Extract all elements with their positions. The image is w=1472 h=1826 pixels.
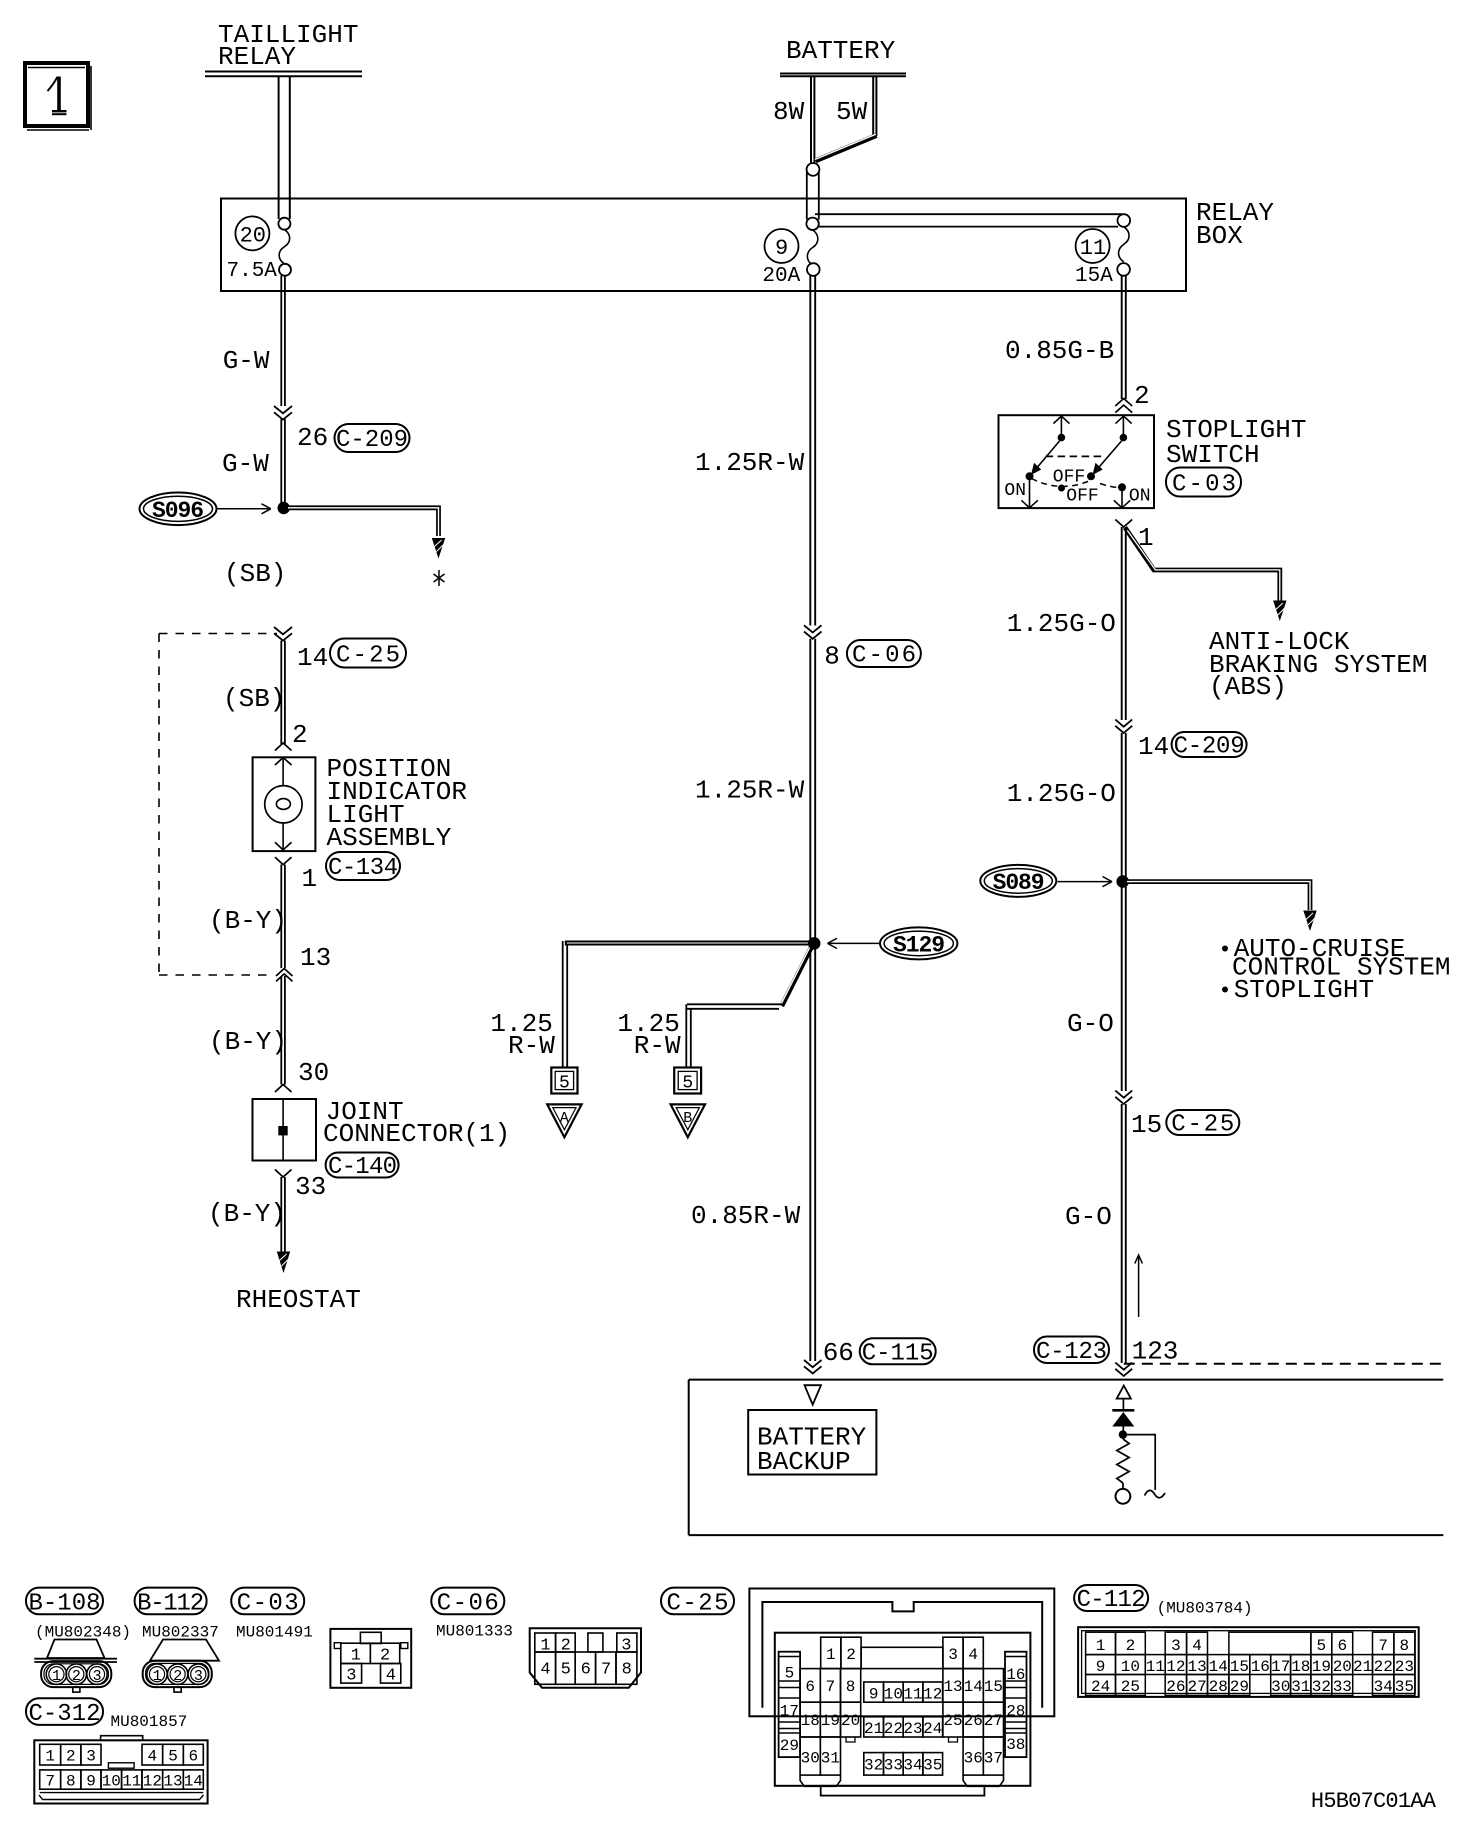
connector stadium C-209 right xyxy=(1172,732,1247,761)
connector drawing C-25 xyxy=(749,1589,1054,1796)
fuse 9 top terminal xyxy=(806,218,818,230)
connector stadium C-115 xyxy=(860,1338,936,1367)
position indicator light assembly label xyxy=(327,754,467,853)
wire 1.25G-O C-209 to S089 xyxy=(1122,733,1126,1091)
svg-text:4: 4 xyxy=(386,1667,396,1686)
svg-text:20: 20 xyxy=(240,224,266,249)
svg-text:29: 29 xyxy=(780,1737,799,1755)
anti-lock braking system label xyxy=(1209,627,1427,702)
connector pass symbol 14 xyxy=(274,627,292,641)
svg-text:5: 5 xyxy=(1317,1637,1327,1655)
switch pole right on dot xyxy=(1118,483,1126,491)
svg-text:5: 5 xyxy=(559,1074,570,1094)
svg-text:3: 3 xyxy=(621,1637,631,1656)
fuse 9 element xyxy=(762,230,819,288)
resistor xyxy=(1117,1439,1129,1483)
connector stadium C-112 xyxy=(1074,1585,1148,1614)
svg-text:1: 1 xyxy=(45,1748,55,1766)
branch arrowhead xyxy=(432,538,445,559)
svg-text:5: 5 xyxy=(785,1665,795,1683)
svg-text:3: 3 xyxy=(86,1748,96,1766)
switch pole left pivot dot xyxy=(1026,472,1034,480)
svg-text:21: 21 xyxy=(864,1720,883,1738)
branch wire A from S129 xyxy=(565,941,814,946)
wire inside joint connector xyxy=(282,1099,284,1161)
svg-text:C-06: C-06 xyxy=(852,643,916,670)
ABS arrowhead xyxy=(1273,601,1286,622)
svg-text:7: 7 xyxy=(45,1773,55,1791)
svg-text:B-108: B-108 xyxy=(29,1590,101,1617)
svg-text:C-03: C-03 xyxy=(1172,472,1236,499)
svg-text:16: 16 xyxy=(1251,1658,1270,1676)
connector stadium C-123 xyxy=(1034,1337,1109,1367)
svg-text:3: 3 xyxy=(194,1668,203,1685)
junction dot S096 xyxy=(278,502,290,514)
lead to diode xyxy=(1122,1399,1124,1410)
takeoff triangle B xyxy=(671,1104,705,1137)
svg-text:B-112: B-112 xyxy=(137,1590,204,1617)
battery backup box xyxy=(748,1410,876,1475)
branch wire from S096 junction xyxy=(285,508,439,536)
svg-text:11: 11 xyxy=(903,1686,922,1704)
frame number text 1 xyxy=(48,77,67,115)
svg-text:15: 15 xyxy=(1230,1658,1249,1676)
svg-text:10: 10 xyxy=(102,1773,121,1791)
svg-text:(SB): (SB) xyxy=(224,559,286,589)
connector stadium C-134 xyxy=(326,852,400,882)
svg-text:3: 3 xyxy=(1171,1637,1181,1655)
svg-text:1: 1 xyxy=(153,1668,162,1685)
position indicator light assembly box xyxy=(253,757,316,851)
takeoff triangle A xyxy=(547,1104,581,1137)
svg-text:12: 12 xyxy=(143,1773,162,1791)
board connector triangle up xyxy=(1117,1386,1131,1399)
arrow S129 to junction xyxy=(828,938,880,948)
connector drawing C-03 xyxy=(330,1629,411,1688)
svg-text:14: 14 xyxy=(1209,1658,1228,1676)
svg-text:3: 3 xyxy=(346,1667,356,1686)
branch wire B horizontal xyxy=(687,1004,783,1009)
svg-text:4: 4 xyxy=(1192,1637,1202,1655)
svg-text:26: 26 xyxy=(1166,1678,1185,1696)
svg-text:2: 2 xyxy=(1134,381,1150,411)
svg-text:25: 25 xyxy=(1121,1678,1140,1696)
svg-text:3: 3 xyxy=(93,1668,102,1685)
connector drawing B-108 xyxy=(34,1640,117,1693)
svg-text:8: 8 xyxy=(846,1678,856,1696)
connector stadium C-25 bottom xyxy=(661,1588,734,1618)
diode xyxy=(1112,1410,1134,1426)
svg-text:37: 37 xyxy=(984,1750,1003,1768)
svg-text:(B-Y): (B-Y) xyxy=(209,906,287,936)
svg-text:2: 2 xyxy=(173,1668,182,1685)
switch pole left contact dot xyxy=(1058,434,1066,442)
cut tilde mark xyxy=(1145,1490,1166,1497)
svg-text:G-O: G-O xyxy=(1067,1009,1114,1039)
svg-text:C-03: C-03 xyxy=(237,1590,299,1617)
svg-text:33: 33 xyxy=(884,1757,903,1775)
arrow S096 to junction xyxy=(217,504,271,514)
svg-text:28: 28 xyxy=(1006,1703,1025,1721)
connector chevrons stoplight top xyxy=(1115,399,1132,413)
svg-text:22: 22 xyxy=(1374,1658,1393,1676)
svg-text:S129: S129 xyxy=(893,933,945,959)
svg-text:C-209: C-209 xyxy=(336,427,408,454)
svg-text:4: 4 xyxy=(968,1646,978,1664)
S089 branch arrowhead xyxy=(1303,911,1316,932)
switch dashed link horizontal xyxy=(1046,455,1105,457)
svg-text:MU801857: MU801857 xyxy=(111,1713,188,1731)
relay box xyxy=(221,199,1186,292)
svg-text:B: B xyxy=(683,1110,692,1127)
svg-text:30: 30 xyxy=(298,1058,329,1088)
svg-text:1.25R-W: 1.25R-W xyxy=(695,776,805,806)
label 1.25 R-W branch B xyxy=(617,1009,681,1061)
svg-text:21: 21 xyxy=(1353,1658,1372,1676)
svg-text:0.85R-W: 0.85R-W xyxy=(691,1201,801,1231)
svg-text:15: 15 xyxy=(1131,1110,1162,1140)
connector stadium C-06 xyxy=(431,1588,504,1618)
svg-text:25: 25 xyxy=(943,1712,962,1730)
connector chevron joint connector top xyxy=(275,1085,292,1093)
bulb symbol xyxy=(265,786,302,823)
switch pole right output lead xyxy=(1121,488,1123,507)
svg-text:34: 34 xyxy=(903,1757,922,1775)
svg-text:32: 32 xyxy=(864,1757,883,1775)
connector stadium C-140 xyxy=(326,1153,399,1182)
svg-text:CONNECTOR(1): CONNECTOR(1) xyxy=(323,1119,510,1149)
svg-text:22: 22 xyxy=(884,1720,903,1738)
connector pass symbol 13 xyxy=(276,969,293,982)
junction dot below diode xyxy=(1119,1430,1127,1438)
wire battery to fuse 9 xyxy=(807,172,819,220)
switch pole right blade xyxy=(1097,441,1122,470)
svg-text:7.5A: 7.5A xyxy=(227,260,278,283)
wire 1.25G-O switch to C-209 xyxy=(1122,527,1126,720)
svg-text:9: 9 xyxy=(775,236,788,261)
branch wire to cut mark xyxy=(1124,1435,1155,1490)
lead diode to resistor xyxy=(1122,1427,1124,1440)
switch dashed linkage arc xyxy=(1032,479,1121,488)
svg-text:C-115: C-115 xyxy=(862,1340,934,1367)
switch pole left chevron xyxy=(1053,416,1069,424)
wire 0.85G-B fuse11 to stoplight switch xyxy=(1122,276,1126,400)
frame number box "1" xyxy=(25,63,91,130)
splice label S089 xyxy=(980,865,1056,897)
connector stadium B-112 xyxy=(135,1588,207,1618)
connector chevrons at light assembly top xyxy=(275,743,292,765)
svg-text:4: 4 xyxy=(540,1661,550,1680)
splice label S129 xyxy=(880,927,957,959)
ABS branch wire xyxy=(1125,528,1280,602)
svg-text:10: 10 xyxy=(884,1686,903,1704)
svg-text:OFF: OFF xyxy=(1066,487,1098,507)
svg-text:5W: 5W xyxy=(836,97,868,127)
svg-text:1.25G-O: 1.25G-O xyxy=(1007,609,1116,639)
stoplight switch box xyxy=(999,415,1155,508)
auto-cruise stoplight labels xyxy=(1222,934,1450,1005)
svg-text:1: 1 xyxy=(52,1668,61,1685)
bus wire fuse 9 to fuse 11 xyxy=(815,214,1122,226)
switch pole right lead xyxy=(1122,416,1124,434)
svg-text:14: 14 xyxy=(297,643,328,673)
asterisk footnote mark xyxy=(434,570,445,586)
svg-text:ON: ON xyxy=(1129,487,1151,507)
wire 1.25R-W fuse9 to C-06 xyxy=(810,276,815,626)
connector stadium C-312 xyxy=(26,1698,103,1728)
svg-text:1: 1 xyxy=(826,1646,836,1664)
svg-text:3: 3 xyxy=(948,1646,958,1664)
stoplight switch label xyxy=(1166,415,1306,470)
svg-text:S096: S096 xyxy=(152,498,204,524)
junction dot S089 xyxy=(1116,875,1129,888)
svg-text:31: 31 xyxy=(1291,1678,1310,1696)
svg-text:12: 12 xyxy=(923,1686,942,1704)
fuse 9 circled number xyxy=(765,229,799,263)
svg-text:123: 123 xyxy=(1132,1337,1179,1367)
svg-text:11: 11 xyxy=(1080,236,1106,261)
svg-text:RELAY: RELAY xyxy=(218,42,296,72)
svg-text:8: 8 xyxy=(824,642,840,672)
svg-text:C-209: C-209 xyxy=(1174,734,1245,761)
svg-text:STOPLIGHT: STOPLIGHT xyxy=(1234,975,1374,1005)
svg-text:14: 14 xyxy=(184,1773,203,1791)
svg-text:23: 23 xyxy=(1395,1658,1414,1676)
splice label S096 xyxy=(140,493,217,526)
svg-text:24: 24 xyxy=(923,1720,942,1738)
svg-text:16: 16 xyxy=(1006,1666,1025,1684)
svg-text:ON: ON xyxy=(1004,481,1026,501)
connector stadium C-06 xyxy=(847,640,921,670)
svg-text:C-123: C-123 xyxy=(1036,1339,1107,1366)
switch pole left blade xyxy=(1035,441,1060,470)
svg-text:20A: 20A xyxy=(762,265,800,288)
svg-text:2: 2 xyxy=(846,1646,856,1664)
svg-text:66: 66 xyxy=(823,1338,854,1368)
svg-text:H5B07C01AA: H5B07C01AA xyxy=(1311,1789,1437,1814)
svg-text:5: 5 xyxy=(561,1661,571,1680)
svg-text:30: 30 xyxy=(1271,1678,1290,1696)
svg-text:20: 20 xyxy=(1333,1658,1352,1676)
battery 8W wire xyxy=(811,77,814,163)
connector pass symbol 66 xyxy=(804,1360,822,1374)
svg-text:G-W: G-W xyxy=(222,449,269,479)
wire B-Y to rheostat xyxy=(281,1177,285,1252)
switch pole left blade arrowhead xyxy=(1031,463,1041,475)
switch pole right pivot dot xyxy=(1087,472,1095,480)
svg-text:ASSEMBLY: ASSEMBLY xyxy=(327,823,452,853)
svg-text:1.25G-O: 1.25G-O xyxy=(1007,779,1116,809)
switch pole left lead xyxy=(1060,416,1062,434)
switch pole right blade arrowhead xyxy=(1093,463,1103,475)
connector stadium C-209 xyxy=(335,424,410,454)
connector chevron inside box top xyxy=(275,758,292,766)
svg-text:13: 13 xyxy=(163,1773,182,1791)
connector drawing C-312 xyxy=(34,1736,207,1804)
svg-text:13: 13 xyxy=(943,1678,962,1696)
svg-text:1: 1 xyxy=(351,1647,361,1666)
battery 5W diagonal wire xyxy=(815,134,877,161)
switch pole left output lead xyxy=(1029,478,1031,507)
svg-text:C-25: C-25 xyxy=(336,643,400,670)
svg-text:7: 7 xyxy=(1378,1637,1388,1655)
svg-text:32: 32 xyxy=(1312,1678,1331,1696)
joint connector label xyxy=(323,1097,510,1149)
wire B-Y light assembly to 13 xyxy=(281,865,285,1085)
svg-text:7: 7 xyxy=(826,1678,836,1696)
switch chevron bottom left xyxy=(1021,500,1038,508)
svg-text:27: 27 xyxy=(984,1712,1003,1730)
svg-text:14: 14 xyxy=(964,1678,983,1696)
svg-text:OFF: OFF xyxy=(1053,468,1085,488)
switch pole right contact dot xyxy=(1120,434,1128,442)
connector chevron below switch xyxy=(1115,520,1132,528)
svg-text:G-W: G-W xyxy=(223,346,270,376)
rheostat arrowhead xyxy=(277,1252,290,1274)
svg-text:9: 9 xyxy=(869,1686,879,1704)
svg-text:C-134: C-134 xyxy=(328,855,398,882)
connector chevrons at light assembly bottom xyxy=(275,842,292,864)
connector pass symbol 14 right xyxy=(1115,720,1132,734)
svg-text:5: 5 xyxy=(168,1748,178,1766)
svg-text:R-W: R-W xyxy=(508,1031,555,1061)
wire inside light assembly xyxy=(282,757,284,851)
svg-text:6: 6 xyxy=(581,1661,591,1680)
connector stadium B-108 xyxy=(26,1588,103,1618)
svg-text:6: 6 xyxy=(1338,1637,1348,1655)
svg-text:2: 2 xyxy=(292,720,308,750)
connector stadium C-03 xyxy=(231,1588,304,1618)
svg-text:8: 8 xyxy=(1400,1637,1410,1655)
fuse 11 element xyxy=(1075,227,1130,288)
connector stadium C-25 right xyxy=(1166,1110,1239,1139)
svg-text:18: 18 xyxy=(1291,1658,1310,1676)
svg-text:26: 26 xyxy=(297,423,328,453)
wire from taillight relay to fuse 20 xyxy=(279,77,290,219)
svg-text:31: 31 xyxy=(821,1750,840,1768)
svg-text:35: 35 xyxy=(1395,1678,1414,1696)
taillight relay underline xyxy=(205,72,362,77)
svg-text:MU801333: MU801333 xyxy=(436,1623,513,1641)
svg-text:(B-Y): (B-Y) xyxy=(208,1199,286,1229)
svg-text:13: 13 xyxy=(300,943,331,973)
wire G-O C-25 to C-123 xyxy=(1122,1104,1126,1363)
switch pole right chevron xyxy=(1116,416,1132,424)
label 1.25 R-W branch A xyxy=(490,1009,555,1061)
svg-text:2: 2 xyxy=(1126,1637,1136,1655)
svg-text:19: 19 xyxy=(821,1712,840,1730)
svg-text:15: 15 xyxy=(984,1678,1003,1696)
wire down to terminal 5B xyxy=(686,1004,691,1068)
arrow S089 to junction xyxy=(1058,877,1113,887)
battery underline xyxy=(780,74,906,77)
svg-text:15A: 15A xyxy=(1075,265,1113,288)
svg-text:7: 7 xyxy=(601,1661,611,1680)
bottom assembly box xyxy=(689,1380,1444,1536)
joint connector box xyxy=(253,1099,317,1161)
svg-text:8: 8 xyxy=(66,1773,76,1791)
svg-text:10: 10 xyxy=(1121,1658,1140,1676)
svg-text:G-O: G-O xyxy=(1065,1202,1112,1232)
svg-text:1: 1 xyxy=(302,864,318,894)
fuse 20 element xyxy=(227,218,292,283)
svg-text:MU801491: MU801491 xyxy=(236,1624,313,1642)
svg-text:BATTERY: BATTERY xyxy=(786,36,896,66)
connector pass symbol 15 xyxy=(1115,1091,1132,1105)
svg-text:35: 35 xyxy=(923,1757,942,1775)
svg-text:C-140: C-140 xyxy=(328,1154,397,1181)
svg-text:23: 23 xyxy=(903,1720,922,1738)
svg-text:33: 33 xyxy=(295,1172,326,1202)
svg-text:RHEOSTAT: RHEOSTAT xyxy=(236,1285,361,1315)
svg-text:C-06: C-06 xyxy=(437,1590,499,1617)
battery 5W wire xyxy=(873,77,876,137)
svg-text:14: 14 xyxy=(1138,732,1169,762)
svg-text:A: A xyxy=(560,1110,569,1127)
svg-text:8W: 8W xyxy=(773,97,805,127)
fuse 11 circled number xyxy=(1076,229,1110,263)
svg-text:(B-Y): (B-Y) xyxy=(209,1027,287,1057)
dashed ground-group outline xyxy=(159,634,277,976)
svg-text:11: 11 xyxy=(122,1773,141,1791)
terminal box 5 A xyxy=(551,1068,577,1094)
svg-text:2: 2 xyxy=(66,1748,76,1766)
svg-text:6: 6 xyxy=(189,1748,199,1766)
terminal circle xyxy=(1116,1489,1131,1504)
connector drawing C-06 xyxy=(530,1628,641,1688)
svg-text:8: 8 xyxy=(622,1661,632,1680)
svg-text:5: 5 xyxy=(682,1074,693,1094)
svg-text:18: 18 xyxy=(801,1712,820,1730)
direction arrow up xyxy=(1135,1255,1143,1317)
branch wire B from S129 diagonal xyxy=(781,944,813,1006)
svg-text:34: 34 xyxy=(1374,1678,1393,1696)
svg-text:SWITCH: SWITCH xyxy=(1166,440,1260,470)
svg-text:36: 36 xyxy=(964,1750,983,1768)
svg-text:R-W: R-W xyxy=(634,1031,681,1061)
branch wire from S089 xyxy=(1124,882,1310,910)
svg-text:6: 6 xyxy=(805,1678,815,1696)
connector drawing C-112 xyxy=(1078,1627,1419,1697)
junction dot S129 xyxy=(808,937,821,950)
svg-text:38: 38 xyxy=(1006,1736,1025,1754)
svg-text:1.25R-W: 1.25R-W xyxy=(695,448,805,478)
svg-text:2: 2 xyxy=(72,1668,81,1685)
svg-text:2: 2 xyxy=(561,1637,571,1656)
dashed boundary line xyxy=(1124,1363,1444,1365)
svg-text:4: 4 xyxy=(148,1748,158,1766)
svg-text:17: 17 xyxy=(780,1703,799,1721)
svg-text:11: 11 xyxy=(1146,1658,1165,1676)
svg-text:33: 33 xyxy=(1333,1678,1352,1696)
switch off contact dot xyxy=(1058,485,1065,492)
svg-text:27: 27 xyxy=(1188,1678,1207,1696)
svg-text:24: 24 xyxy=(1091,1678,1110,1696)
svg-text:13: 13 xyxy=(1188,1658,1207,1676)
wire SB to light assembly xyxy=(281,641,285,744)
svg-text:20: 20 xyxy=(841,1712,860,1730)
svg-text:28: 28 xyxy=(1209,1678,1228,1696)
svg-text:C-25: C-25 xyxy=(1171,1112,1234,1139)
svg-text:2: 2 xyxy=(380,1647,390,1666)
svg-text:(SB): (SB) xyxy=(223,684,285,714)
svg-text:19: 19 xyxy=(1312,1658,1331,1676)
svg-text:0.85G-B: 0.85G-B xyxy=(1005,336,1114,366)
terminal box 5 B xyxy=(674,1068,701,1094)
svg-text:17: 17 xyxy=(1271,1658,1290,1676)
connector pass symbol 8 xyxy=(804,625,822,639)
svg-text:S089: S089 xyxy=(993,870,1045,896)
